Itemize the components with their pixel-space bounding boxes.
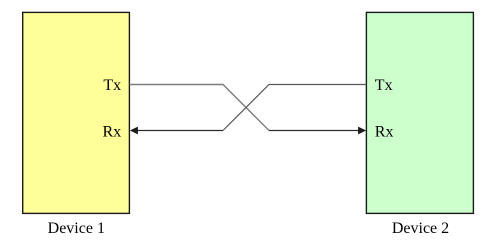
svg-text:Tx: Tx [103,77,121,94]
svg-text:Tx: Tx [375,77,393,94]
device 2 box [366,12,473,213]
svg-text:Device 2: Device 2 [392,220,449,237]
arrowhead at device2 Rx [358,127,366,135]
arrow line into device2 Rx [269,130,359,132]
wire Tx device2 to Rx device1 (gray, with crossover diagonal) [223,85,366,131]
wire Tx device1 to Rx device2 (gray, with crossover diagonal) [129,85,269,131]
svg-text:Rx: Rx [103,123,122,140]
arrowhead at device1 Rx [130,127,138,135]
svg-text:Device 1: Device 1 [48,220,105,237]
arrow line into device1 Rx [137,130,223,132]
device 1 box [23,12,130,213]
svg-text:Rx: Rx [375,123,394,140]
